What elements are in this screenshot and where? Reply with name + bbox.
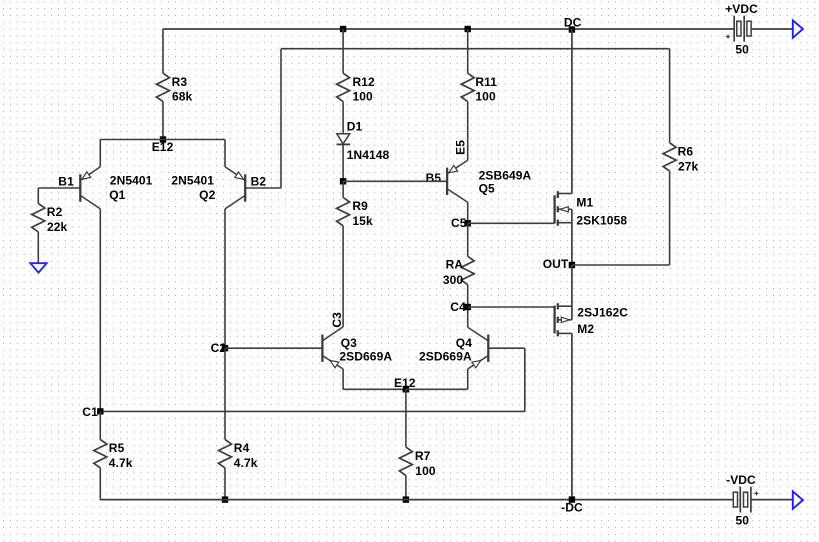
wire R6 top lead: [669, 49, 671, 143]
resistor R7: [399, 447, 412, 475]
svg-text:R4: R4: [234, 441, 250, 455]
label R9: [352, 199, 368, 213]
node -DC junction: [569, 496, 575, 502]
label R9 value 15k: [352, 214, 373, 228]
label M2 type 2SJ162C: [577, 306, 628, 320]
label node OUT: [543, 257, 569, 271]
node R11 top junction: [465, 26, 471, 32]
svg-text:R5: R5: [109, 441, 125, 455]
svg-text:R7: R7: [415, 449, 431, 463]
mosfet M2 body arrow: [561, 317, 569, 322]
svg-text:300: 300: [443, 273, 464, 287]
svg-text:C3: C3: [330, 312, 344, 328]
svg-text:15k: 15k: [352, 214, 373, 228]
wire R7 bottom lead: [405, 476, 407, 500]
wire R5 top lead: [99, 411, 101, 439]
label node DC: [564, 16, 582, 30]
resistor R6: [663, 143, 676, 171]
svg-text:Q5: Q5: [479, 181, 495, 195]
wire R5 bottom lead: [99, 468, 101, 500]
transistor Q3 emitter wire: [322, 356, 406, 390]
resistor R4: [219, 440, 232, 468]
svg-text:R2: R2: [47, 205, 63, 219]
svg-text:4.7k: 4.7k: [234, 456, 258, 470]
svg-text:E5: E5: [453, 140, 467, 155]
svg-text:68k: 68k: [172, 90, 193, 104]
label M1 type 2SK1058: [576, 214, 627, 228]
transistor Q1 base bar: [79, 174, 81, 201]
node C5 junction: [465, 220, 471, 226]
svg-text:1N4148: 1N4148: [347, 148, 390, 162]
wire bottom -DC rail: [100, 499, 733, 501]
transistor Q1 emitter wire: [80, 140, 100, 181]
mosfet M1 body arrow: [560, 207, 568, 212]
svg-text:M2: M2: [577, 322, 594, 336]
label RA value 300: [443, 273, 464, 287]
ground: [30, 263, 46, 272]
label R6: [678, 144, 694, 158]
svg-text:R9: R9: [352, 199, 368, 213]
label node C2: [211, 341, 227, 355]
svg-text:C5: C5: [451, 216, 467, 230]
svg-text:22k: 22k: [47, 220, 68, 234]
wire R9 to Q3 collector: [342, 226, 344, 327]
label R3: [172, 75, 188, 89]
svg-text:2N5401: 2N5401: [171, 173, 214, 187]
label +VDC: [725, 2, 758, 16]
label R5 value 4.7k: [109, 456, 133, 470]
node C2 junction: [222, 345, 228, 351]
label node C4: [450, 300, 466, 314]
resistor R9: [337, 197, 350, 225]
label R4 value 4.7k: [234, 456, 258, 470]
label Q3 type 2SD669A: [339, 349, 392, 363]
label node E5 (rotated): [453, 140, 467, 155]
wire C5 to M1 gate: [468, 222, 555, 224]
transistor Q3 collector diagonal: [322, 327, 343, 341]
node C4 junction: [465, 304, 471, 310]
node E12 (bottom) junction: [403, 386, 409, 392]
wire R11 top lead: [467, 29, 469, 73]
svg-text:4.7k: 4.7k: [109, 456, 133, 470]
node B5 junction: [340, 178, 346, 184]
wire top +DC rail: [163, 28, 734, 30]
svg-text:-DC: -DC: [561, 500, 583, 514]
label R12: [353, 75, 376, 89]
transistor Q2 collector wire: [225, 195, 245, 348]
svg-text:Q1: Q1: [109, 188, 125, 202]
label Q4 type 2SD669A: [419, 349, 472, 363]
wire OUT to R6: [572, 264, 670, 266]
wire Q2 base to second rail: [245, 49, 281, 188]
svg-text:R12: R12: [353, 75, 376, 89]
label R7 value 100: [415, 464, 436, 478]
label R12 value 100: [353, 90, 374, 104]
label Q5 type 2SB649A: [479, 168, 532, 182]
resistor R11: [461, 73, 474, 101]
label D1: [347, 120, 363, 134]
resistor R3: [157, 73, 170, 101]
diode D1: [337, 134, 351, 145]
label R7: [415, 449, 431, 463]
wire R7 top lead: [405, 389, 407, 447]
svg-text:C4: C4: [450, 300, 466, 314]
wire Q4 base to C1: [100, 348, 525, 411]
transistor Q5 base bar: [446, 168, 448, 195]
svg-text:E12: E12: [152, 140, 174, 154]
transistor Q5 emitter arrow: [449, 165, 458, 172]
svg-text:+VDC: +VDC: [725, 2, 758, 16]
node C1 junction: [97, 408, 103, 414]
label R5: [109, 441, 125, 455]
label -VDC: [726, 473, 756, 487]
wire R3 top lead: [162, 29, 164, 73]
transistor Q3 base bar: [321, 335, 323, 362]
label RA: [446, 257, 464, 271]
label node -DC: [561, 500, 583, 514]
svg-text:2SD669A: 2SD669A: [419, 349, 472, 363]
svg-text:D1: D1: [347, 120, 363, 134]
wire R2 bottom lead: [37, 232, 39, 263]
svg-text:100: 100: [415, 464, 436, 478]
mosfet M2: [555, 265, 572, 500]
transistor Q5 collector wire: [447, 189, 468, 224]
svg-text:B2: B2: [251, 175, 267, 189]
label R6 value 27k: [678, 159, 699, 173]
svg-text:2SK1058: 2SK1058: [576, 214, 627, 228]
wire R12 top lead: [342, 29, 344, 73]
label R11 value 100: [475, 90, 496, 104]
label node B2: [251, 175, 267, 189]
resistor R2: [32, 204, 45, 232]
transistor Q1 emitter arrow: [82, 172, 91, 179]
wire Q1 base to R2: [38, 187, 80, 189]
node E12 junction: [160, 136, 166, 142]
battery +VDC: [726, 16, 793, 42]
label R4: [234, 441, 250, 455]
transistor Q2 base bar: [244, 174, 246, 201]
label Q1 type 2N5401: [110, 173, 153, 187]
wire R4 bottom lead: [224, 468, 226, 500]
svg-text:Q3: Q3: [341, 336, 357, 350]
node R12 top junction: [340, 26, 346, 32]
label M1: [576, 196, 593, 210]
wire R9 top lead: [342, 181, 344, 197]
label node E12 (top): [152, 140, 174, 154]
wire C2 to Q3 base: [225, 347, 322, 349]
svg-text:E12: E12: [394, 376, 416, 390]
svg-text:2N5401: 2N5401: [110, 173, 153, 187]
transistor Q2 emitter arrow: [235, 172, 244, 179]
label Q3: [341, 336, 357, 350]
label Q1: [109, 188, 125, 202]
transistor Q4 emitter arrow: [472, 360, 481, 367]
port -VDC terminal: [793, 491, 803, 509]
transistor Q1 collector wire: [80, 195, 100, 411]
mosfet M1: [555, 29, 572, 265]
label Q5: [479, 181, 495, 195]
svg-text:2SD669A: 2SD669A: [339, 349, 392, 363]
node R4 bottom junction: [222, 496, 228, 502]
label R3 value 68k: [172, 90, 193, 104]
svg-text:2SJ162C: 2SJ162C: [577, 306, 628, 320]
svg-text:R11: R11: [475, 75, 497, 89]
svg-text:Q2: Q2: [199, 188, 215, 202]
label node E12 (bottom): [394, 376, 416, 390]
label R2 value 22k: [47, 220, 68, 234]
svg-text:M1: M1: [576, 196, 593, 210]
wire D1 to B5: [342, 144, 344, 181]
svg-text:R6: R6: [678, 144, 694, 158]
wire E12 horizontal: [100, 139, 225, 141]
transistor Q4 emitter wire: [406, 356, 488, 390]
svg-text:50: 50: [736, 514, 750, 528]
svg-text:50: 50: [735, 43, 749, 57]
svg-text:27k: 27k: [678, 159, 699, 173]
svg-text:R3: R3: [172, 75, 188, 89]
svg-text:B1: B1: [58, 174, 74, 188]
label Q2 type 2N5401: [171, 173, 214, 187]
wire R11 to Q5 emitter: [467, 102, 469, 161]
wire second rail from B2 to R6: [281, 48, 670, 50]
node OUT junction: [569, 262, 575, 268]
transistor Q3 emitter arrow: [330, 360, 339, 367]
label D1 type 1N4148: [347, 148, 390, 162]
svg-text:Q4: Q4: [456, 336, 472, 350]
label node C1: [82, 405, 98, 419]
transistor Q5 emitter diagonal: [447, 160, 468, 174]
wire C4 to M2 gate: [468, 306, 555, 308]
transistor Q2 emitter wire: [225, 140, 245, 181]
svg-text:C2: C2: [211, 341, 227, 355]
wire B5 to Q5 base: [343, 180, 447, 182]
label Q4: [456, 336, 472, 350]
svg-text:-VDC: -VDC: [726, 473, 756, 487]
label M2: [577, 322, 594, 336]
wire R3 bottom lead: [162, 102, 164, 140]
label -VDC value 50: [736, 514, 750, 528]
wire R6 bottom lead: [669, 171, 671, 265]
resistor R12: [337, 73, 350, 101]
wire RA bottom lead: [467, 285, 469, 307]
svg-text:DC: DC: [564, 16, 582, 30]
transistor Q4 base bar: [487, 335, 489, 362]
label +VDC value 50: [735, 43, 749, 57]
label Q2: [199, 188, 215, 202]
wire RA top lead: [467, 223, 469, 256]
svg-text:B5: B5: [426, 171, 442, 185]
svg-text:C1: C1: [82, 405, 98, 419]
svg-text:RA: RA: [446, 257, 464, 271]
svg-text:100: 100: [475, 90, 496, 104]
label R11: [475, 75, 497, 89]
resistor RA: [461, 256, 474, 284]
node R7 bottom junction: [403, 496, 409, 502]
label node C5: [451, 216, 467, 230]
svg-text:2SB649A: 2SB649A: [479, 168, 532, 182]
label R2: [47, 205, 63, 219]
port +VDC terminal: [793, 20, 803, 38]
node DC junction: [569, 26, 575, 32]
svg-text:100: 100: [353, 90, 374, 104]
transistor Q4 collector diagonal: [468, 307, 489, 341]
wire R12 to D1: [342, 102, 344, 134]
resistor R5: [94, 440, 107, 468]
label node B5: [426, 171, 442, 185]
wire R2 top lead: [37, 188, 39, 204]
label node B1: [58, 174, 74, 188]
battery -VDC: [733, 487, 793, 513]
label node C3 (rotated): [330, 312, 344, 328]
svg-text:OUT: OUT: [543, 257, 569, 271]
wire R4 top lead: [224, 348, 226, 439]
